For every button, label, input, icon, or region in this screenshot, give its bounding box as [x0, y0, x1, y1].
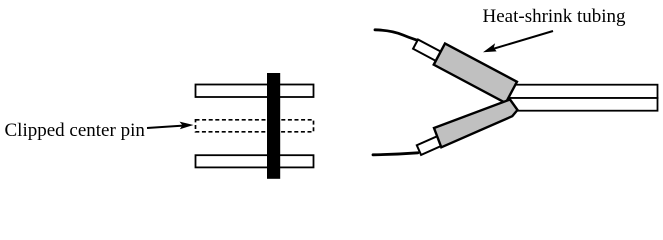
- clipped center pin (dashed outline): [196, 120, 314, 132]
- upper inner tubing (white): [413, 40, 446, 64]
- connector top pin: [196, 85, 314, 98]
- svg-text:Heat-shrink tubing: Heat-shrink tubing: [483, 6, 627, 27]
- connector body (black bar): [267, 73, 280, 179]
- arrow to heat-shrink tubing: [483, 31, 553, 52]
- lower wire: [373, 153, 418, 155]
- connector bottom pin: [196, 155, 314, 167]
- svg-text:Clipped center pin: Clipped center pin: [5, 120, 146, 141]
- upper wire: [375, 30, 418, 41]
- lower inner tubing (white): [417, 132, 451, 155]
- cable upper conductor: [505, 85, 658, 98]
- arrow to clipped center pin: [147, 122, 194, 130]
- lower heat-shrink tube (gray): [434, 100, 518, 148]
- cable lower conductor: [505, 98, 658, 111]
- upper heat-shrink tube (gray): [434, 44, 517, 103]
